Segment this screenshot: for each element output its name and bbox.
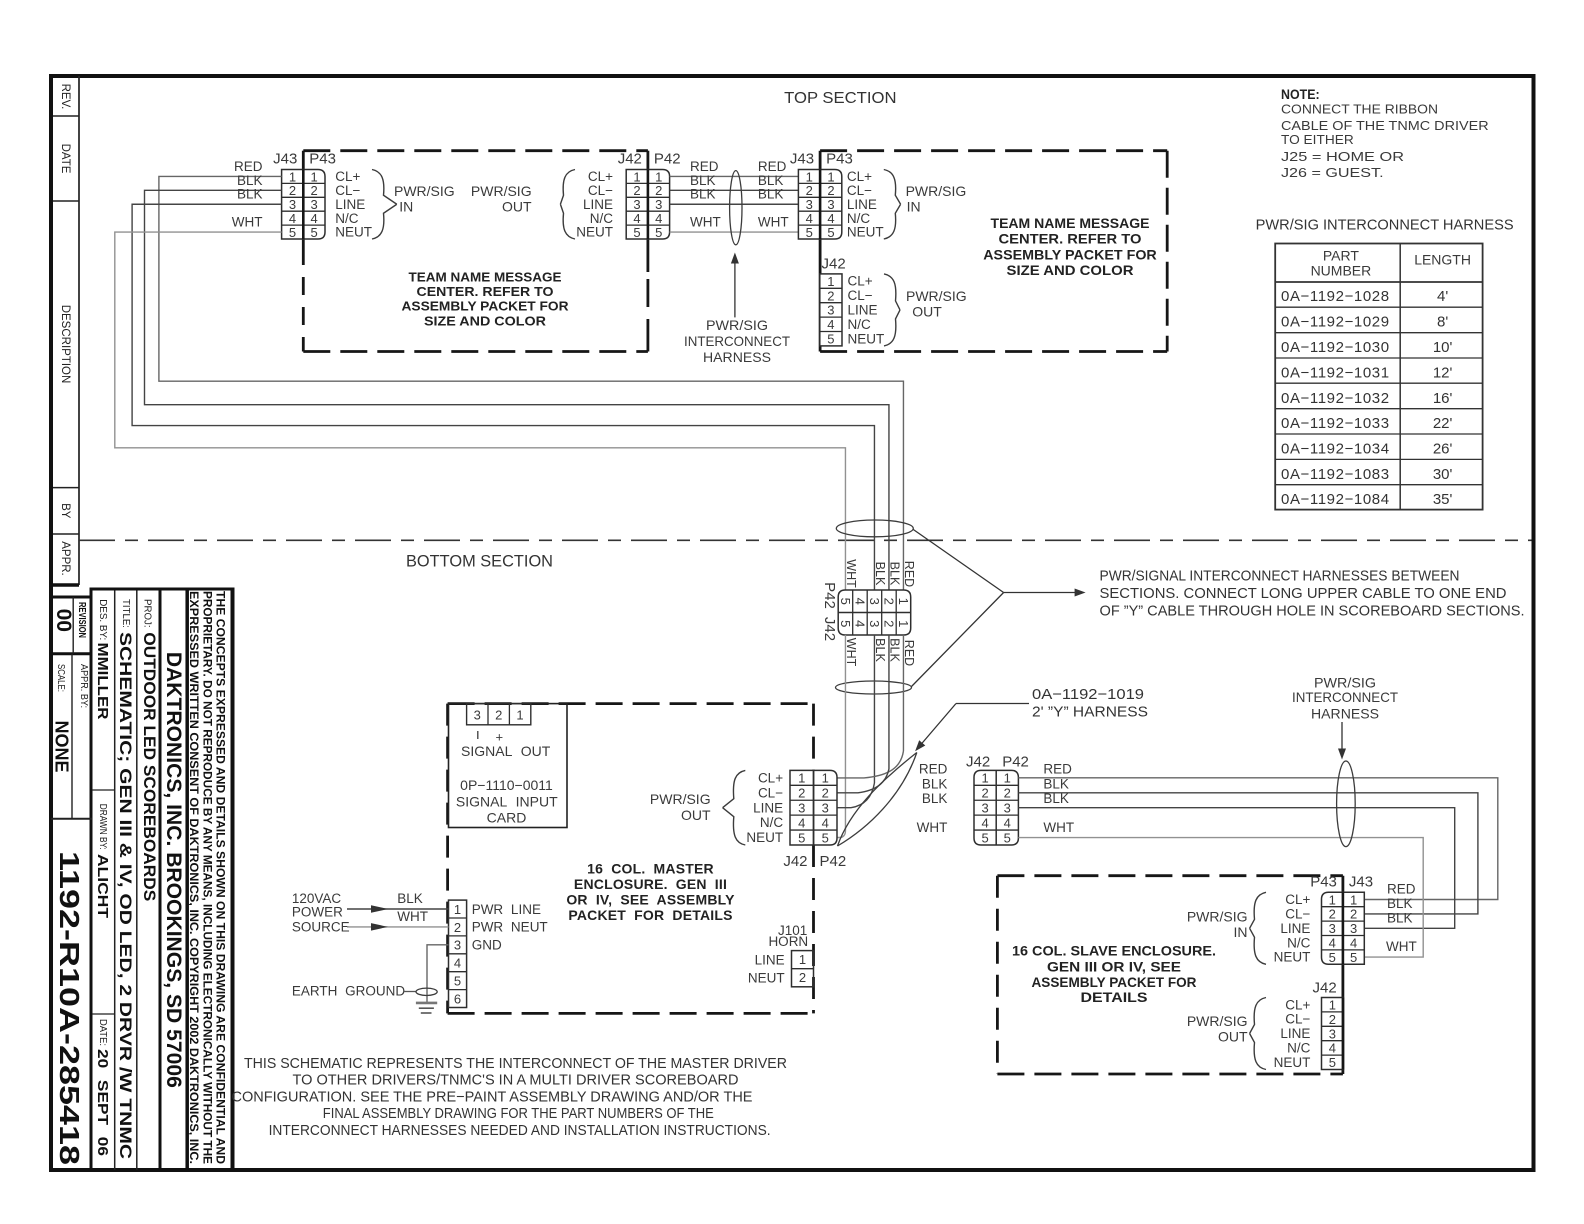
svg-text:OF ”Y” CABLE THROUGH HOLE IN S: OF ”Y” CABLE THROUGH HOLE IN SCOREBOARD …: [1100, 604, 1525, 620]
wire labels right of C7: [1043, 762, 1074, 836]
earth ground symbol: [292, 984, 437, 1014]
Y harness cable lens outline: [838, 753, 917, 847]
svg-text:LENGTH: LENGTH: [1414, 251, 1471, 267]
wire BLK: interconnect harness between message centers: [670, 203, 799, 205]
svg-text:WHT: WHT: [917, 820, 948, 835]
svg-text:3: 3: [827, 197, 834, 212]
svg-text:4: 4: [289, 211, 296, 226]
svg-text:5: 5: [655, 225, 662, 240]
svg-text:2: 2: [495, 708, 502, 723]
note: pwr/signal interconnect harnesses between sections: [1100, 569, 1525, 620]
svg-text:12': 12': [1433, 364, 1453, 381]
svg-text:RED: RED: [690, 159, 719, 174]
svg-text:PART: PART: [1323, 248, 1359, 264]
wire labels interconnect (left side): [690, 159, 721, 230]
svg-text:MMILLER: MMILLER: [94, 643, 111, 720]
svg-text:4: 4: [827, 317, 834, 332]
wire BLK: J43 pin loop to section interconnect: [132, 204, 874, 590]
svg-text:TEAM NAME MESSAGE: TEAM NAME MESSAGE: [991, 215, 1150, 231]
svg-text:1: 1: [1350, 892, 1357, 907]
svg-text:2: 2: [655, 183, 662, 198]
svg-text:0A−1192−1030: 0A−1192−1030: [1281, 339, 1390, 356]
svg-text:0A−1192−1084: 0A−1192−1084: [1281, 491, 1390, 508]
svg-text:CENTER. REFER TO: CENTER. REFER TO: [417, 284, 554, 299]
svg-text:PWR/SIG: PWR/SIG: [706, 317, 768, 333]
svg-text:35': 35': [1433, 491, 1453, 508]
svg-text:5: 5: [311, 225, 318, 240]
wire WHT: P42 to slave J43: [1018, 838, 1423, 958]
svg-text:TO EITHER: TO EITHER: [1281, 132, 1354, 147]
Y harness curve to P42 pin 3: [837, 783, 874, 808]
svg-text:5: 5: [1004, 830, 1011, 845]
svg-text:DESCRIPTION: DESCRIPTION: [59, 305, 71, 384]
svg-text:OR IV, SEE ASSEMBLY: OR IV, SEE ASSEMBLY: [566, 892, 735, 908]
svg-text:5: 5: [289, 225, 296, 240]
svg-text:RED: RED: [1387, 882, 1416, 897]
svg-text:2: 2: [799, 970, 806, 985]
svg-text:1: 1: [655, 169, 662, 184]
svg-text:CL+: CL+: [847, 169, 872, 184]
svg-text:PWR/SIG: PWR/SIG: [1187, 1013, 1248, 1029]
svg-text:4: 4: [454, 956, 461, 971]
connector J42 (right message center, PWR/SIG OUT): [820, 256, 884, 347]
svg-text:ALICHT: ALICHT: [94, 854, 111, 918]
svg-text:LINE: LINE: [753, 800, 783, 815]
svg-text:26': 26': [1433, 441, 1453, 458]
svg-text:TO OTHER DRIVERS/TNMC'S IN A M: TO OTHER DRIVERS/TNMC'S IN A MULTI DRIVE…: [293, 1072, 739, 1089]
svg-text:2: 2: [798, 786, 805, 801]
svg-text:BLK: BLK: [873, 562, 887, 586]
svg-text:2: 2: [1004, 786, 1011, 801]
svg-text:0P−1110−0011: 0P−1110−0011: [460, 777, 553, 793]
svg-text:ASSEMBLY PACKET FOR: ASSEMBLY PACKET FOR: [983, 246, 1157, 262]
svg-text:2: 2: [1350, 907, 1357, 922]
svg-text:2: 2: [827, 288, 834, 303]
svg-text:5: 5: [981, 830, 988, 845]
svg-text:1: 1: [896, 598, 911, 605]
wire labels left of C7: [917, 762, 948, 836]
svg-text:3: 3: [1004, 801, 1011, 816]
svg-text:2' ”Y” HARNESS: 2' ”Y” HARNESS: [1032, 704, 1148, 721]
svg-text:EXPRESSED WRITTEN CONSENT OF D: EXPRESSED WRITTEN CONSENT OF DAKTRONICS,…: [187, 591, 201, 1164]
cable bundle ellipse (top interconnect): [730, 171, 742, 245]
svg-text:CENTER. REFER TO: CENTER. REFER TO: [999, 231, 1142, 247]
svg-text:SCHEMATIC; GEN III & IV, OD LE: SCHEMATIC; GEN III & IV, OD LED, 2 DRVR …: [116, 632, 135, 1159]
svg-text:CL+: CL+: [1285, 892, 1310, 907]
svg-text:1: 1: [1329, 998, 1336, 1013]
svg-text:LINE: LINE: [335, 197, 365, 212]
svg-text:WHT: WHT: [690, 215, 721, 230]
connector J42/P42 (Y harness to slave): [966, 754, 1029, 846]
wire BLK: P42 to slave J43: [1018, 808, 1454, 929]
rotated wire labels above interconnect connector: [844, 559, 916, 588]
brace PWR/SIG OUT (left enclosure): [560, 170, 575, 240]
Y harness curve to P42 pin 2: [837, 769, 889, 793]
wire WHT: 120VAC neut to TB1-2: [347, 926, 449, 928]
svg-text:PWR/SIG: PWR/SIG: [650, 791, 711, 807]
svg-text:2: 2: [1329, 907, 1336, 922]
revision strip column (REV/DATE/DESCRIPTION/BY/APPR boxes): [49, 76, 79, 585]
svg-text:WHT: WHT: [1386, 939, 1417, 954]
svg-text:LINE: LINE: [1280, 921, 1310, 936]
svg-text:5: 5: [798, 830, 805, 845]
svg-text:16 COL. SLAVE ENCLOSURE.: 16 COL. SLAVE ENCLOSURE.: [1012, 943, 1216, 959]
svg-text:J43: J43: [273, 150, 297, 167]
svg-text:PWR/SIGNAL INTERCONNECT HARNES: PWR/SIGNAL INTERCONNECT HARNESSES BETWEE…: [1100, 569, 1460, 585]
label PWR/SIG INTERCONNECT HARNESS (top): [684, 317, 790, 365]
svg-text:3: 3: [1329, 921, 1336, 936]
Y harness curve to P42 pin 5: [837, 831, 845, 838]
svg-text:CONNECT THE RIBBON: CONNECT THE RIBBON: [1281, 101, 1438, 116]
svg-text:2: 2: [881, 598, 896, 605]
svg-text:SIZE AND COLOR: SIZE AND COLOR: [1007, 262, 1134, 278]
svg-text:IN: IN: [907, 199, 921, 215]
svg-text:NEUT: NEUT: [847, 225, 884, 240]
svg-text:1: 1: [633, 169, 640, 184]
svg-text:NEUT: NEUT: [746, 830, 783, 845]
svg-text:NEUT: NEUT: [1274, 950, 1311, 965]
svg-text:CL−: CL−: [588, 183, 613, 198]
svg-text:00: 00: [52, 609, 75, 632]
svg-text:CL−: CL−: [848, 288, 873, 303]
svg-text:2: 2: [981, 786, 988, 801]
svg-text:DATE: DATE: [59, 144, 71, 174]
svg-text:SIZE AND COLOR: SIZE AND COLOR: [424, 313, 547, 328]
svg-text:2: 2: [822, 786, 829, 801]
svg-text:EARTH GROUND: EARTH GROUND: [292, 984, 406, 999]
svg-text:PROPRIETARY. DO NOT REPRODUCE: PROPRIETARY. DO NOT REPRODUCE BY ANY MEA…: [200, 591, 214, 1164]
wire WHT: J43 pin loop to section interconnect: [115, 232, 846, 590]
svg-text:NEUT: NEUT: [748, 971, 785, 986]
enclosure: 16 col slave: [997, 876, 1343, 1074]
svg-text:2: 2: [827, 183, 834, 198]
svg-text:N/C: N/C: [590, 211, 614, 226]
rotated wire labels below interconnect connector: [844, 638, 916, 667]
svg-text:3: 3: [474, 708, 481, 723]
svg-text:CONFIGURATION. SEE THE PRE−PA: CONFIGURATION. SEE THE PRE−PAINT ASSEMBL…: [232, 1088, 753, 1105]
svg-text:J42: J42: [783, 853, 807, 870]
svg-text:1: 1: [454, 902, 461, 917]
svg-text:DETAILS: DETAILS: [1081, 989, 1148, 1005]
connector J42/P42 (left message center, PWR/SIG OUT): [576, 150, 680, 239]
svg-text:RED: RED: [919, 762, 948, 777]
brace PWR/SIG IN (slave): [1250, 892, 1266, 964]
wire labels interconnect (right side): [758, 159, 789, 230]
svg-text:CL+: CL+: [758, 770, 783, 785]
svg-text:SIGNAL INPUT: SIGNAL INPUT: [456, 794, 558, 810]
svg-text:NONE: NONE: [51, 720, 71, 772]
svg-text:RED: RED: [234, 159, 263, 174]
enclosure: 16 col master: [448, 704, 814, 1014]
svg-text:3: 3: [1329, 1026, 1336, 1041]
note text block: [1281, 87, 1489, 180]
svg-text:BLK: BLK: [690, 187, 716, 202]
svg-text:SIGNAL OUT: SIGNAL OUT: [461, 743, 551, 759]
svg-text:J43: J43: [790, 150, 814, 167]
svg-text:J42: J42: [966, 754, 990, 771]
label 0A-1192-1019 2ft Y harness: [915, 686, 1148, 751]
svg-text:FINAL ASSEMBLY DRAWING FOR THE: FINAL ASSEMBLY DRAWING FOR THE PART NUMB…: [323, 1105, 714, 1122]
svg-text:WHT: WHT: [758, 215, 789, 230]
svg-text:SCALE:: SCALE:: [55, 664, 67, 692]
svg-text:REV.: REV.: [59, 84, 71, 110]
svg-text:TEAM NAME MESSAGE: TEAM NAME MESSAGE: [409, 270, 562, 285]
svg-text:BLK: BLK: [690, 173, 716, 188]
svg-text:1: 1: [799, 952, 806, 967]
svg-text:3: 3: [822, 801, 829, 816]
svg-text:8': 8': [1437, 314, 1448, 331]
svg-text:4: 4: [852, 598, 867, 605]
section divider dashed line: [79, 539, 1532, 541]
svg-text:J42: J42: [822, 256, 846, 273]
svg-text:BLK: BLK: [1387, 896, 1413, 911]
svg-text:GEN III OR IV, SEE: GEN III OR IV, SEE: [1047, 959, 1181, 975]
svg-text:PWR/SIG INTERCONNECT HARNESS: PWR/SIG INTERCONNECT HARNESS: [1256, 217, 1514, 234]
svg-text:LINE: LINE: [1280, 1026, 1310, 1041]
svg-text:OUT: OUT: [1218, 1029, 1248, 1045]
svg-text:OUT: OUT: [502, 199, 532, 215]
svg-text:CL−: CL−: [335, 183, 360, 198]
svg-text:120VAC: 120VAC: [292, 891, 342, 906]
svg-text:4: 4: [1350, 936, 1357, 951]
arrow to interconnect harness: [734, 261, 736, 317]
svg-text:2: 2: [881, 620, 896, 627]
svg-text:CL+: CL+: [335, 169, 360, 184]
svg-text:CL−: CL−: [758, 785, 783, 800]
svg-text:4: 4: [655, 211, 662, 226]
svg-text:0A−1192−1028: 0A−1192−1028: [1281, 288, 1390, 305]
svg-text:5: 5: [838, 620, 853, 627]
svg-text:0A−1192−1033: 0A−1192−1033: [1281, 415, 1390, 432]
label 120VAC POWER SOURCE: [292, 891, 350, 935]
svg-text:N/C: N/C: [1287, 1041, 1311, 1056]
svg-text:5: 5: [838, 598, 853, 605]
brace PWR/SIG IN (right enclosure): [884, 170, 901, 240]
svg-text:BLK: BLK: [922, 791, 948, 806]
svg-text:P43: P43: [1310, 874, 1337, 891]
svg-text:BLK: BLK: [1387, 910, 1413, 925]
svg-text:J42: J42: [1313, 980, 1337, 997]
svg-text:5: 5: [454, 973, 461, 988]
enclosure: team name message center (right): [820, 151, 1167, 352]
pointer lines to note: [912, 530, 1086, 687]
svg-text:3: 3: [867, 598, 882, 605]
svg-text:PACKET FOR DETAILS: PACKET FOR DETAILS: [568, 907, 732, 923]
svg-text:1: 1: [981, 771, 988, 786]
svg-text:2: 2: [454, 920, 461, 935]
svg-text:THE CONCEPTS EXPRESSED AND DET: THE CONCEPTS EXPRESSED AND DETAILS SHOWN…: [214, 591, 228, 1164]
svg-text:N/C: N/C: [335, 211, 359, 226]
wire WHT: interconnect harness between message centers: [670, 231, 799, 233]
svg-text:LINE: LINE: [583, 197, 613, 212]
svg-text:3: 3: [311, 197, 318, 212]
svg-text:2: 2: [289, 183, 296, 198]
svg-text:4: 4: [311, 211, 318, 226]
svg-text:0A−1192−1031: 0A−1192−1031: [1281, 364, 1390, 381]
wire GND to earth ground: [427, 945, 449, 1003]
svg-text:N/C: N/C: [760, 815, 784, 830]
wire BLK: interconnect to Y harness: [888, 635, 890, 769]
svg-text:4: 4: [633, 211, 640, 226]
svg-text:J25 = HOME OR: J25 = HOME OR: [1281, 149, 1404, 164]
svg-text:HARNESS: HARNESS: [1311, 706, 1379, 722]
svg-text:BLK: BLK: [758, 187, 784, 202]
svg-text:SECTIONS. CONNECT LONG UPPER: SECTIONS. CONNECT LONG UPPER CABLE TO ON…: [1100, 586, 1507, 602]
svg-text:3: 3: [454, 938, 461, 953]
svg-text:5: 5: [822, 830, 829, 845]
svg-text:P42: P42: [821, 582, 838, 609]
svg-text:INTERCONNECT HARNESSES NEEDED: INTERCONNECT HARNESSES NEEDED AND INSTAL…: [269, 1122, 771, 1139]
svg-text:DES. BY:: DES. BY:: [97, 599, 109, 640]
svg-text:ASSEMBLY PACKET FOR: ASSEMBLY PACKET FOR: [1032, 974, 1197, 990]
brace PWR/SIG IN (left): [372, 170, 397, 240]
svg-text:INTERCONNECT: INTERCONNECT: [1292, 689, 1398, 705]
svg-text:INTERCONNECT: INTERCONNECT: [684, 333, 790, 349]
svg-text:BLK: BLK: [758, 173, 784, 188]
svg-text:OUTDOOR LED SCOREBOARDS: OUTDOOR LED SCOREBOARDS: [140, 632, 159, 901]
brace PWR/SIG OUT (slave): [1250, 998, 1266, 1070]
wire BLK: interconnect harness between message centers: [670, 189, 799, 191]
title block: [51, 588, 234, 1171]
svg-text:3: 3: [655, 197, 662, 212]
svg-text:POWER: POWER: [292, 905, 343, 920]
wire RED: interconnect to Y harness: [902, 635, 904, 751]
svg-text:J26 = GUEST.: J26 = GUEST.: [1281, 165, 1384, 180]
svg-text:5: 5: [1329, 1055, 1336, 1070]
svg-text:4: 4: [981, 815, 988, 830]
svg-text:OUT: OUT: [912, 303, 942, 319]
svg-text:BLK: BLK: [237, 173, 263, 188]
svg-text:LINE: LINE: [848, 303, 878, 318]
svg-text:BLK: BLK: [888, 562, 902, 586]
svg-text:RED: RED: [1043, 762, 1072, 777]
wire RED: P42 to slave J43: [1018, 778, 1497, 900]
bottom descriptive paragraph: [232, 1055, 788, 1139]
svg-text:1: 1: [1004, 771, 1011, 786]
svg-text:20 SEPT 06: 20 SEPT 06: [94, 1049, 111, 1156]
svg-text:GND: GND: [472, 938, 502, 953]
wire BLK: J43 pin loop to section interconnect: [145, 190, 889, 590]
svg-text:ENCLOSURE. GEN III: ENCLOSURE. GEN III: [574, 876, 727, 892]
svg-text:PWR/SIG: PWR/SIG: [471, 183, 532, 199]
wire WHT: interconnect to Y harness: [844, 635, 846, 831]
svg-text:1: 1: [827, 274, 834, 289]
wire labels at J43 (left): [232, 159, 263, 230]
svg-text:1: 1: [311, 169, 318, 184]
svg-text:DATE:: DATE:: [97, 1019, 109, 1046]
svg-text:3: 3: [806, 197, 813, 212]
svg-text:APPR.: APPR.: [59, 541, 71, 576]
svg-text:1: 1: [827, 169, 834, 184]
svg-text:PWR/SIG: PWR/SIG: [1187, 908, 1248, 924]
svg-text:4: 4: [806, 211, 813, 226]
svg-text:CL−: CL−: [1285, 1012, 1310, 1027]
svg-text:REVISION: REVISION: [76, 602, 87, 638]
svg-text:PWR NEUT: PWR NEUT: [472, 920, 548, 935]
svg-text:BLK: BLK: [237, 187, 263, 202]
svg-text:1: 1: [896, 620, 911, 627]
svg-text:N/C: N/C: [1287, 935, 1311, 950]
svg-text:J42: J42: [618, 150, 642, 167]
svg-text:1192-R10A-285418: 1192-R10A-285418: [54, 851, 85, 1165]
cable bundle ellipse (upper): [836, 520, 913, 537]
svg-text:CL+: CL+: [588, 169, 613, 184]
svg-text:BOTTOM SECTION: BOTTOM SECTION: [406, 553, 553, 571]
cable bundle ellipse (slave harness): [1337, 761, 1356, 847]
svg-text:WHT: WHT: [1043, 820, 1074, 835]
wire RED: J43 pin loop to section interconnect: [159, 176, 904, 590]
svg-text:5: 5: [827, 225, 834, 240]
svg-text:IN: IN: [399, 199, 413, 215]
svg-text:PROJ:: PROJ:: [141, 599, 153, 628]
svg-text:N/C: N/C: [847, 211, 871, 226]
connector J101 horn: [748, 923, 814, 987]
svg-text:10': 10': [1433, 339, 1453, 356]
svg-text:THIS SCHEMATIC REPRESENTS THE: THIS SCHEMATIC REPRESENTS THE INTERCONNE…: [244, 1055, 787, 1072]
svg-text:TITLE:: TITLE:: [120, 599, 132, 628]
svg-text:16 COL. MASTER: 16 COL. MASTER: [587, 861, 714, 877]
svg-text:NEUT: NEUT: [576, 225, 613, 240]
svg-text:CL+: CL+: [1285, 997, 1310, 1012]
svg-text:6: 6: [454, 991, 461, 1006]
connector P43/J43 (slave, PWR/SIG IN): [1274, 874, 1373, 965]
connector J43/P43 (right message center, PWR/SIG IN): [790, 150, 884, 239]
svg-text:NOTE:: NOTE:: [1281, 87, 1320, 102]
svg-text:3: 3: [798, 801, 805, 816]
svg-text:DAKTRONICS, INC. BROOKINGS,: DAKTRONICS, INC. BROOKINGS, SD 57006: [162, 652, 185, 1088]
svg-text:P42: P42: [654, 150, 681, 167]
svg-text:1: 1: [822, 771, 829, 786]
svg-text:1: 1: [798, 771, 805, 786]
svg-text:SOURCE: SOURCE: [292, 919, 350, 934]
svg-text:5: 5: [806, 225, 813, 240]
svg-text:3: 3: [1350, 921, 1357, 936]
svg-text:2: 2: [633, 183, 640, 198]
svg-text:5: 5: [1350, 950, 1357, 965]
wire RED: interconnect harness between message centers: [670, 175, 799, 177]
svg-text:PWR LINE: PWR LINE: [472, 902, 541, 917]
svg-text:5: 5: [827, 332, 834, 347]
svg-text:WHT: WHT: [232, 215, 263, 230]
label PWR/SIG INTERCONNECT HARNESS (slave): [1292, 675, 1398, 760]
svg-text:4: 4: [1329, 936, 1336, 951]
svg-text:BLK: BLK: [922, 777, 948, 792]
svg-text:16': 16': [1433, 390, 1453, 407]
svg-text:PWR/SIG: PWR/SIG: [394, 183, 455, 199]
svg-text:3: 3: [289, 197, 296, 212]
connector J42 (slave, PWR/SIG OUT): [1274, 980, 1344, 1071]
svg-text:PWR/SIG: PWR/SIG: [906, 183, 967, 199]
svg-text:RED: RED: [758, 159, 787, 174]
svg-text:WHT: WHT: [844, 559, 858, 588]
cable bundle ellipse (lower): [836, 681, 912, 694]
svg-text:CL+: CL+: [848, 274, 873, 289]
svg-text:22': 22': [1433, 415, 1453, 432]
connector J43/P43 (left message center, PWR/SIG IN): [273, 150, 372, 239]
svg-text:5: 5: [1329, 950, 1336, 965]
brace PWR/SIG OUT (master): [723, 770, 746, 845]
svg-text:OUT: OUT: [681, 807, 711, 823]
wire labels at slave J43: [1386, 882, 1417, 955]
svg-text:N/C: N/C: [848, 317, 872, 332]
svg-text:P43: P43: [309, 150, 336, 167]
svg-text:P42: P42: [820, 853, 847, 870]
svg-text:5: 5: [633, 225, 640, 240]
svg-text:NEUT: NEUT: [848, 331, 885, 346]
svg-text:APPR. BY:: APPR. BY:: [78, 664, 90, 708]
svg-text:3: 3: [981, 801, 988, 816]
power terminal block TB1: [449, 900, 548, 1007]
